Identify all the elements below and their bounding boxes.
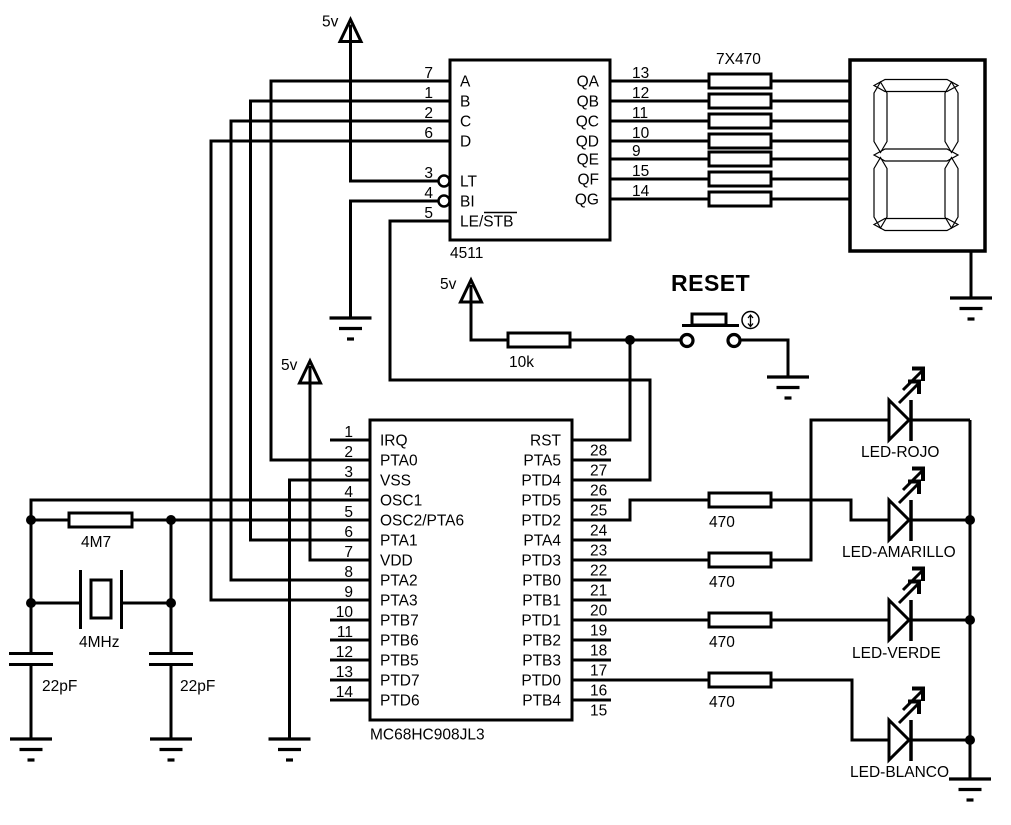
svg-text:PTB6: PTB6 — [380, 633, 419, 650]
wire C1 to ground — [30, 666, 33, 739]
wire 4511 QG to resistor — [610, 198, 709, 201]
svg-text:LT: LT — [460, 174, 477, 191]
node crystal right junction — [166, 598, 176, 608]
wire 4M7 left to OSC1 net — [31, 519, 69, 522]
svg-text:5: 5 — [344, 504, 353, 521]
svg-text:24: 24 — [590, 523, 608, 540]
svg-text:7: 7 — [344, 544, 353, 561]
svg-text:9: 9 — [632, 143, 641, 160]
capacitor C1 22pF — [9, 654, 77, 696]
wire 4511 C to MCU PTA2 — [231, 121, 450, 580]
MCU right pin labels — [521, 433, 561, 710]
resistor network element 3 470 — [709, 114, 771, 128]
resistor network element 5 470 — [709, 152, 771, 166]
svg-text:12: 12 — [336, 644, 353, 661]
wire MCU PTD3 to resistor R4 — [572, 559, 709, 562]
svg-text:17: 17 — [590, 663, 607, 680]
svg-text:OSC1: OSC1 — [380, 493, 422, 510]
svg-text:22pF: 22pF — [180, 678, 215, 695]
power 5v symbol for reset pull-up — [440, 276, 482, 302]
svg-text:7: 7 — [424, 65, 433, 82]
svg-text:PTD2: PTD2 — [521, 513, 561, 530]
pin bubble on 4511 BI — [439, 196, 450, 207]
svg-text:15: 15 — [590, 703, 607, 720]
wire MCU right pin stub — [572, 639, 611, 642]
svg-text:27: 27 — [590, 463, 607, 480]
svg-text:18: 18 — [590, 643, 607, 660]
svg-text:B: B — [460, 94, 470, 111]
wire R6 to LED-BLANCO — [771, 680, 889, 740]
4511 left pin numbers 7 1 2 6 3 4 5 — [424, 65, 433, 222]
LED D1 LED-ROJO — [861, 367, 939, 461]
node rail at LED-AMARILLO — [965, 515, 975, 525]
svg-text:8: 8 — [344, 564, 353, 581]
svg-text:14: 14 — [336, 684, 354, 701]
svg-text:1: 1 — [344, 424, 353, 441]
svg-text:PTB2: PTB2 — [522, 633, 561, 650]
svg-text:LED-ROJO: LED-ROJO — [861, 444, 939, 461]
svg-text:3: 3 — [344, 464, 353, 481]
resistor network element 1 470 — [709, 74, 771, 88]
svg-text:IRQ: IRQ — [380, 433, 408, 450]
LED D2 LED-AMARILLO — [842, 467, 956, 561]
4511 output pin labels QA-QG — [575, 74, 600, 209]
wire 7-segment display common to ground — [970, 251, 973, 297]
resistor network element 7 470 — [709, 192, 771, 206]
wire crystal right lead — [123, 602, 171, 605]
svg-text:5v: 5v — [440, 276, 457, 293]
svg-text:PTB3: PTB3 — [522, 653, 561, 670]
power 5v symbol for 4511 LT — [322, 14, 361, 42]
svg-text:2: 2 — [344, 444, 353, 461]
resistor R2 4M7 — [69, 513, 132, 551]
wire MCU PTD1 to resistor R5 — [572, 619, 709, 622]
wire MCU right pin stub — [572, 659, 611, 662]
svg-text:2: 2 — [424, 105, 433, 122]
svg-text:VDD: VDD — [380, 553, 413, 570]
svg-text:QA: QA — [577, 74, 600, 91]
svg-text:16: 16 — [590, 683, 607, 700]
svg-text:PTA2: PTA2 — [380, 573, 418, 590]
ground for 4511 BI — [330, 318, 372, 339]
node rail at LED-BLANCO — [965, 735, 975, 745]
node OSC2 net at 4M7 — [166, 515, 176, 525]
svg-text:PTA4: PTA4 — [523, 533, 561, 550]
svg-text:28: 28 — [590, 443, 607, 460]
wire MCU left pin stub — [330, 659, 370, 662]
ground for LED cathode rail — [949, 779, 991, 800]
wire R5 to LED-VERDE — [771, 619, 889, 622]
svg-text:LED-VERDE: LED-VERDE — [852, 645, 941, 662]
wire 4511 QE to resistor — [610, 158, 709, 161]
svg-text:10: 10 — [632, 125, 650, 142]
svg-text:LE/STB: LE/STB — [460, 214, 513, 231]
wire MCU right pin stub — [572, 579, 611, 582]
wire 4511 QC to resistor — [610, 120, 709, 123]
svg-text:11: 11 — [337, 624, 353, 641]
wire MCU right pin stub — [572, 599, 611, 602]
svg-text:PTA3: PTA3 — [380, 593, 418, 610]
svg-text:PTB4: PTB4 — [522, 693, 561, 710]
4511 right pin numbers 13 12 11 10 9 15 14 — [632, 65, 650, 200]
svg-text:PTD1: PTD1 — [521, 613, 561, 630]
svg-text:PTD4: PTD4 — [521, 473, 561, 490]
svg-text:4MHz: 4MHz — [79, 634, 119, 651]
svg-text:LED-BLANCO: LED-BLANCO — [850, 764, 949, 781]
svg-text:PTB5: PTB5 — [380, 653, 419, 670]
svg-text:14: 14 — [632, 183, 650, 200]
svg-text:23: 23 — [590, 543, 607, 560]
svg-text:QF: QF — [577, 172, 599, 189]
svg-text:12: 12 — [632, 85, 649, 102]
svg-text:10k: 10k — [509, 354, 534, 371]
wire MCU left pin stub — [330, 679, 370, 682]
wire 4511 BI pin to ground — [351, 201, 439, 318]
svg-text:4: 4 — [344, 484, 353, 501]
resistor R3 470 — [709, 493, 771, 531]
svg-text:PTD6: PTD6 — [380, 693, 420, 710]
svg-text:470: 470 — [709, 514, 735, 531]
ground for push button — [767, 377, 809, 398]
wire resistor 7 to 7-segment display — [771, 198, 850, 201]
svg-text:5v: 5v — [322, 14, 339, 31]
svg-text:OSC2/PTA6: OSC2/PTA6 — [380, 513, 464, 530]
wire LED-VERDE to cathode rail — [911, 619, 970, 622]
svg-text:13: 13 — [632, 65, 649, 82]
svg-text:19: 19 — [590, 623, 607, 640]
wire LED cathode rail — [969, 420, 972, 779]
svg-text:13: 13 — [336, 664, 353, 681]
crystal X1 4MHz — [79, 570, 122, 651]
svg-text:RST: RST — [530, 433, 562, 450]
svg-text:470: 470 — [709, 574, 735, 591]
wire OSC2 net vertical — [170, 520, 173, 652]
wire MCU right pin stub — [572, 539, 611, 542]
7-segment digit figure-8 segments — [874, 80, 958, 231]
ground for 7-segment display — [950, 298, 992, 319]
resistor R5 470 — [709, 613, 771, 651]
svg-text:PTD3: PTD3 — [521, 553, 561, 570]
wire crystal left lead — [31, 602, 79, 605]
svg-text:A: A — [460, 74, 471, 91]
ground for MCU VSS — [269, 739, 311, 760]
svg-text:15: 15 — [632, 163, 649, 180]
svg-text:PTB0: PTB0 — [522, 573, 561, 590]
power 5v symbol for MCU VDD — [281, 357, 321, 383]
svg-text:QC: QC — [576, 114, 599, 131]
LED D4 LED-BLANCO — [850, 687, 949, 781]
wire 4511 LE/STB to MCU PTD4 — [390, 221, 650, 480]
wire 4511 B to MCU PTA1 — [251, 101, 451, 540]
wire resistor 3 to 7-segment display — [771, 120, 850, 123]
svg-text:3: 3 — [424, 165, 433, 182]
resistor network element 6 470 — [709, 172, 771, 186]
wire 4511 QB to resistor — [610, 100, 709, 103]
svg-text:C: C — [460, 114, 471, 131]
svg-text:MC68HC908JL3: MC68HC908JL3 — [370, 727, 485, 744]
wire LED-ROJO to cathode rail — [911, 419, 970, 422]
wire MCU left pin stub — [330, 699, 370, 702]
wire MCU OSC1 to crystal net — [31, 500, 370, 652]
svg-text:QE: QE — [577, 152, 599, 169]
svg-text:QD: QD — [576, 134, 599, 151]
pin bubble on 4511 LT — [439, 176, 450, 187]
node RST junction — [625, 335, 635, 345]
wire resistor 1 to 7-segment display — [771, 80, 850, 83]
ground for C1 — [10, 739, 52, 760]
ground for C2 — [150, 739, 192, 760]
IC U1 4511 BCD-to-7-segment decoder body — [450, 60, 610, 240]
svg-text:RESET: RESET — [671, 270, 750, 296]
MCU right pin numbers 28-15 — [590, 443, 608, 720]
svg-text:PTA0: PTA0 — [380, 453, 418, 470]
resistor R1 10k — [508, 333, 570, 371]
wire 5v to 4511 LT pin — [351, 40, 439, 181]
wire LED-BLANCO to cathode rail — [911, 739, 970, 742]
svg-text:25: 25 — [590, 503, 607, 520]
wire 5v to MCU VDD — [310, 380, 370, 560]
svg-text:PTA1: PTA1 — [380, 533, 418, 550]
MCU left pin numbers 1-14 — [336, 424, 354, 701]
wire resistor 6 to 7-segment display — [771, 178, 850, 181]
wire MCU right pin stub — [572, 699, 611, 702]
resistor network element 4 470 — [709, 134, 771, 148]
svg-text:5: 5 — [424, 205, 433, 222]
resistor network element 2 470 — [709, 94, 771, 108]
svg-text:6: 6 — [344, 524, 353, 541]
svg-text:10: 10 — [336, 604, 354, 621]
svg-text:4511: 4511 — [450, 245, 483, 262]
svg-text:22pF: 22pF — [42, 678, 77, 695]
svg-text:PTD7: PTD7 — [380, 673, 420, 690]
node OSC1 net at 4M7 — [26, 515, 36, 525]
resistor R4 470 — [709, 553, 771, 591]
svg-text:20: 20 — [590, 603, 608, 620]
4511 pin labels LT BI LE/STB with overline — [460, 174, 517, 231]
capacitor C2 22pF — [149, 654, 215, 696]
wire 4511 QD to resistor — [610, 140, 709, 143]
node rail at LED-VERDE — [965, 615, 975, 625]
wire MCU left pin stub — [330, 439, 370, 442]
wire C2 to ground — [170, 666, 173, 739]
svg-text:11: 11 — [632, 105, 648, 122]
wire resistor 4 to 7-segment display — [771, 140, 850, 143]
svg-text:21: 21 — [590, 583, 607, 600]
svg-text:1: 1 — [424, 85, 433, 102]
wire RST node to MCU RST pin — [572, 340, 630, 440]
svg-text:LED-AMARILLO: LED-AMARILLO — [842, 544, 956, 561]
wire LED-AMARILLO to cathode rail — [911, 519, 970, 522]
svg-text:26: 26 — [590, 483, 607, 500]
wire MCU right pin stub — [572, 459, 611, 462]
svg-text:7X470: 7X470 — [716, 51, 761, 68]
svg-text:PTB1: PTB1 — [522, 593, 561, 610]
svg-text:QG: QG — [575, 192, 599, 209]
wire MCU PTD2 to resistor R3 — [572, 500, 709, 520]
push button SW1 — [681, 312, 759, 347]
4511 input pin labels A B C D — [460, 74, 471, 151]
svg-text:PTA5: PTA5 — [523, 453, 561, 470]
svg-text:VSS: VSS — [380, 473, 411, 490]
svg-text:PTD5: PTD5 — [521, 493, 561, 510]
wire MCU VSS to ground — [290, 480, 371, 739]
node crystal left junction — [26, 598, 36, 608]
svg-text:D: D — [460, 134, 471, 151]
MCU U2 MC68HC908JL3 body — [370, 420, 572, 720]
wire 4511 A to MCU PTA0 — [271, 81, 450, 460]
svg-text:QB: QB — [577, 94, 599, 111]
wire resistor 2 to 7-segment display — [771, 100, 850, 103]
wire RST node to push button — [630, 339, 681, 342]
resistor R6 470 — [709, 673, 771, 711]
wire resistor 5 to 7-segment display — [771, 158, 850, 161]
svg-text:9: 9 — [344, 584, 353, 601]
wire MCU PTD0 to resistor R6 — [572, 679, 709, 682]
svg-text:PTD0: PTD0 — [521, 673, 561, 690]
svg-text:22: 22 — [590, 563, 607, 580]
wire MCU right pin stub — [572, 499, 611, 502]
svg-text:BI: BI — [460, 194, 475, 211]
wire 4511 D to MCU PTA3 — [211, 141, 450, 600]
svg-text:470: 470 — [709, 634, 735, 651]
MCU left pin labels — [380, 433, 464, 710]
wire 4511 QA to resistor — [610, 80, 709, 83]
LED D3 LED-VERDE — [852, 567, 941, 662]
wire MCU OSC2 to 4M7 net — [132, 519, 370, 522]
wire MCU left pin stub — [330, 639, 370, 642]
wire MCU left pin stub — [330, 619, 370, 622]
svg-text:4M7: 4M7 — [81, 534, 111, 551]
svg-text:6: 6 — [424, 125, 433, 142]
svg-text:5v: 5v — [281, 357, 298, 374]
wire R3 to LED-AMARILLO — [771, 500, 889, 520]
wire 10k resistor to RST node — [570, 339, 630, 342]
wire R4 to LED-ROJO — [771, 420, 889, 560]
svg-text:PTB7: PTB7 — [380, 613, 419, 630]
wire 4511 QF to resistor — [610, 178, 709, 181]
wire push button to ground — [740, 340, 788, 377]
7-segment display DS1 body — [850, 60, 985, 251]
svg-text:4: 4 — [424, 185, 433, 202]
svg-text:470: 470 — [709, 694, 735, 711]
wire 5v to 10k resistor — [471, 300, 508, 340]
